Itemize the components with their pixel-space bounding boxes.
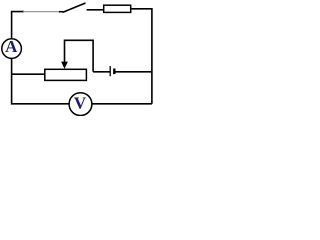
rheostat R2 body — [45, 69, 87, 80]
svg-text:V: V — [74, 93, 87, 112]
wire left rail below ammeter + bottom wire to voltmeter — [12, 58, 70, 103]
wire rheostat wiper: up, across, down to battery row — [65, 40, 94, 72]
battery B1 positive plate (long thin) — [109, 66, 111, 76]
ammeter A circle — [2, 39, 22, 59]
wire switch fixed contact to resistor — [87, 9, 104, 11]
rheostat wiper arrowhead — [61, 62, 68, 69]
wire left rail junction to rheostat left terminal — [12, 73, 45, 75]
switch S blade (open) — [63, 3, 86, 12]
resistor R1 — [104, 5, 131, 12]
svg-text:A: A — [5, 37, 18, 56]
voltmeter V circle — [69, 93, 92, 116]
wire top (faded middle segment) — [23, 11, 60, 13]
wire battery row right segment — [115, 71, 152, 73]
battery B1 negative plate (short thick) — [113, 69, 115, 75]
wire top to switch hinge — [59, 11, 63, 13]
wire battery row left segment — [93, 71, 110, 73]
wire voltmeter to bottom-right corner — [92, 103, 152, 105]
wire top-left: left rail top + top wire start — [12, 12, 24, 39]
wire resistor to top-right corner + right rail — [131, 9, 152, 104]
